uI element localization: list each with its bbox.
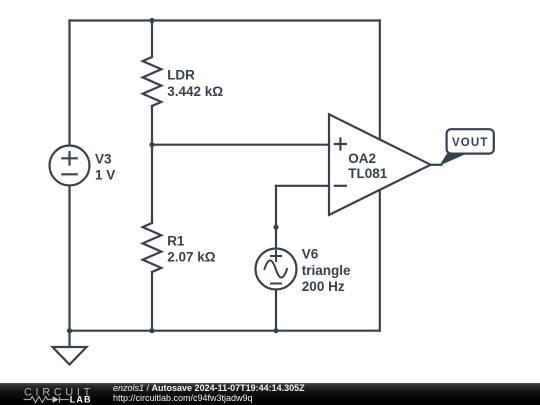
logo diode cathode bar and wire	[60, 396, 70, 403]
V3 plus sign	[62, 152, 76, 164]
node B (LDR / R1 / op-amp + junction)	[149, 142, 154, 147]
V6 plus sign	[271, 251, 281, 261]
svg-text:2.07 kΩ: 2.07 kΩ	[167, 250, 216, 265]
CircuitLab logo	[0, 383, 100, 405]
wire LDR top lead	[151, 21, 153, 58]
wire V6 bottom lead	[275, 290, 277, 331]
svg-text:V6: V6	[302, 247, 319, 262]
wire right vertical	[379, 21, 381, 331]
V3 minus sign	[62, 173, 76, 175]
VOUT flag box	[447, 129, 494, 153]
node A (top rail / LDR junction)	[149, 18, 154, 23]
node C (V6 top / - input junction)	[273, 225, 278, 230]
node F (bottom rail / V6 junction)	[273, 328, 278, 333]
wire V6 top lead vertical	[275, 186, 277, 249]
op-amp + input sign	[335, 139, 346, 150]
svg-text:3.442 kΩ: 3.442 kΩ	[167, 84, 223, 99]
svg-text:LDR: LDR	[167, 68, 195, 83]
svg-text:triangle: triangle	[302, 263, 351, 278]
V6 sine symbol	[265, 261, 288, 278]
resistor LDR (3.442 k) zigzag	[143, 57, 162, 106]
svg-text:V3: V3	[95, 151, 112, 166]
svg-text:200 Hz: 200 Hz	[302, 279, 345, 294]
logo resistor-diode glyph	[24, 397, 53, 403]
svg-text:LAB: LAB	[70, 395, 92, 405]
svg-text:OA2: OA2	[348, 151, 376, 166]
wire left vertical lower (V3 to bottom rail)	[68, 185, 70, 330]
voltage source V3 circle	[50, 146, 90, 186]
svg-text:R1: R1	[167, 234, 185, 249]
wire bottom rail	[70, 330, 380, 332]
voltage source V6 circle	[256, 249, 297, 290]
node E (bottom rail / R1 junction)	[149, 328, 154, 333]
logo diode triangle	[53, 396, 60, 403]
op-amp OA2 triangle	[329, 114, 431, 215]
svg-text:TL081: TL081	[348, 166, 388, 181]
footer bar	[0, 383, 540, 405]
wire ground stub	[68, 331, 70, 347]
svg-text:VOUT: VOUT	[452, 137, 488, 149]
V6 minus sign	[271, 283, 281, 285]
footer info text	[113, 384, 305, 404]
wire op-amp - input horizontal	[276, 185, 329, 187]
node D (bottom rail / ground junction)	[67, 328, 72, 333]
wire R1 bottom lead	[151, 272, 153, 331]
wire LDR bottom lead to R1	[151, 106, 153, 223]
wire middle node to op-amp + input	[152, 144, 329, 146]
VOUT flag pointer	[439, 154, 467, 166]
wire left vertical upper (top rail to V3)	[68, 21, 70, 146]
svg-text:1 V: 1 V	[95, 167, 115, 182]
op-amp - input sign	[335, 185, 346, 187]
resistor R1 (2.07 k) zigzag	[143, 223, 162, 272]
wire op-amp output stub	[431, 164, 442, 166]
ground symbol	[53, 347, 87, 365]
wire top rail	[70, 19, 380, 21]
